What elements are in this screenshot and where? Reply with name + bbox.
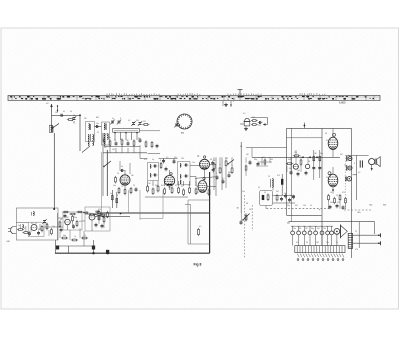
resistor R30 (276, 194, 278, 202)
wire (356, 155, 358, 200)
svg-text:0,1: 0,1 (63, 111, 65, 113)
coil L14 (103, 133, 108, 141)
wire (51, 112, 53, 125)
tuning scale strip (8, 95, 380, 100)
svg-text:15n: 15n (192, 162, 195, 164)
label K6 (96, 117, 99, 119)
resistor R48 (300, 158, 302, 165)
svg-text:220: 220 (196, 192, 199, 194)
svg-text:220: 220 (181, 158, 184, 160)
wire (60, 228, 80, 240)
tube V5 (31, 225, 37, 231)
tube V1 ECH81 (120, 175, 130, 185)
wire (223, 101, 232, 107)
svg-text:0,1: 0,1 (326, 140, 328, 142)
wire (353, 174, 357, 176)
svg-text:80s: 80s (358, 212, 361, 214)
chassis dash line (267, 208, 331, 210)
wire (111, 190, 113, 208)
resistor R27 (231, 166, 233, 174)
wire (241, 213, 246, 222)
antenna A2 mark (57, 105, 58, 112)
wire (291, 215, 293, 221)
svg-text:8: 8 (354, 163, 355, 165)
capacitor C29 (37, 231, 40, 236)
resistor R57 (151, 141, 153, 148)
electrolytic C38 (106, 250, 109, 253)
wire (95, 215, 130, 217)
label Rl (326, 133, 328, 135)
svg-text:0,1: 0,1 (258, 187, 260, 189)
resistor R20 (183, 188, 185, 196)
wire (207, 186, 216, 188)
plus mark (319, 209, 321, 212)
wire (124, 170, 126, 188)
resistor R42 (107, 211, 109, 218)
trimmer C6 (131, 121, 135, 126)
capacitor C45 (329, 205, 332, 210)
svg-text:68: 68 (114, 140, 116, 142)
svg-text:8: 8 (120, 118, 121, 120)
wire (346, 154, 369, 156)
resistor R10 (130, 187, 132, 194)
resistor R26 (225, 159, 227, 167)
wire (116, 192, 118, 208)
resistor R46 (286, 163, 293, 165)
svg-text:1k: 1k (74, 236, 76, 238)
svg-text:0,5: 0,5 (128, 120, 130, 122)
tube V9 EL84 (328, 172, 338, 187)
svg-text:3k3: 3k3 (136, 120, 139, 122)
capacitor C18 (212, 168, 215, 173)
svg-text:0,5: 0,5 (243, 113, 245, 115)
resistor R53 (339, 194, 341, 201)
mech link (251, 205, 253, 231)
svg-text:10n: 10n (284, 193, 287, 195)
trimmer C30 (42, 219, 46, 224)
tube V6 (65, 219, 71, 225)
svg-text:30p: 30p (155, 185, 158, 187)
resistor R43 (61, 237, 68, 239)
svg-text:15n: 15n (293, 228, 296, 230)
junction (332, 189, 334, 191)
resistor R1 (67, 119, 74, 121)
resistor R9 (124, 188, 126, 195)
capacitor C51 (156, 144, 159, 149)
resistor R45 (81, 237, 88, 239)
svg-text:3k3: 3k3 (174, 157, 177, 159)
antenna A1 arrow (50, 104, 53, 112)
resistor R41 (103, 216, 105, 223)
wire (266, 188, 273, 209)
capacitor C27 (292, 195, 295, 200)
transformer T3 (348, 233, 352, 248)
IF can T2 (178, 162, 191, 185)
svg-text:100: 100 (323, 228, 326, 230)
capacitor C34 (95, 223, 98, 228)
wire (374, 222, 376, 234)
wire (79, 115, 81, 151)
label (358, 212, 361, 214)
svg-text:68: 68 (299, 228, 301, 230)
svg-text:1k: 1k (121, 186, 123, 188)
capacitor C46 (336, 204, 339, 209)
resistor R34 (41, 225, 43, 232)
svg-text:68: 68 (308, 161, 310, 163)
svg-text:0,1: 0,1 (175, 185, 177, 187)
resistor R37 (72, 215, 74, 222)
ground bus (55, 252, 210, 254)
wire (140, 130, 161, 132)
coil L13 (104, 124, 106, 131)
capacitor C24 (280, 197, 283, 202)
svg-text:30p: 30p (287, 205, 290, 207)
svg-text:10n: 10n (344, 165, 347, 167)
capacitor C16 (165, 167, 168, 172)
resistor R5 (133, 139, 135, 146)
wire (95, 126, 102, 128)
screen box B6 (63, 212, 82, 230)
svg-text:220: 220 (45, 223, 48, 225)
capacitor C48 (257, 162, 260, 167)
capacitor C23 (281, 174, 283, 195)
svg-text:25: 25 (219, 165, 221, 167)
capacitor C10 (127, 141, 130, 146)
wire (287, 137, 323, 139)
svg-text:AM: AM (181, 132, 184, 135)
wire (164, 159, 175, 164)
resistor R51 (328, 194, 330, 201)
wire (145, 196, 188, 198)
svg-text:15n: 15n (206, 193, 209, 195)
wire (52, 114, 81, 116)
wire (53, 133, 55, 209)
resistor R40 (98, 210, 100, 217)
svg-text:0,1: 0,1 (296, 242, 298, 244)
capacitor C17 (211, 161, 214, 166)
tuning capacitor C2 (72, 115, 76, 124)
chassis bus (100, 212, 210, 214)
wire (148, 153, 161, 155)
svg-text:8: 8 (160, 160, 161, 162)
junction (92, 252, 109, 254)
svg-text:30p: 30p (254, 159, 257, 161)
tube V10 (293, 164, 298, 169)
svg-text:0,5: 0,5 (199, 226, 201, 228)
resistor R25 (219, 166, 221, 174)
svg-text:0,1: 0,1 (310, 205, 312, 207)
resistor R2 (142, 124, 149, 126)
wire (240, 142, 242, 213)
wire (336, 234, 338, 245)
svg-text:6.800: 6.800 (339, 101, 346, 105)
tube V2 EF89 (164, 173, 174, 186)
svg-text:25: 25 (336, 195, 338, 197)
screen box B5 (28, 222, 44, 236)
svg-text:30p: 30p (138, 138, 141, 140)
box AF (260, 191, 273, 206)
svg-text:5p: 5p (110, 193, 112, 195)
svg-text:50: 50 (264, 192, 266, 194)
switch S2 (103, 161, 111, 167)
svg-text:100: 100 (55, 112, 58, 114)
resistor R17 (164, 187, 166, 195)
svg-text:50: 50 (326, 177, 328, 179)
capacitor C47 (342, 205, 345, 210)
wire (58, 218, 85, 221)
label Wh (383, 205, 386, 207)
screen box B4 (16, 208, 58, 240)
wire (20, 224, 31, 232)
tuner bar (113, 129, 140, 133)
svg-text:4k7: 4k7 (295, 205, 298, 207)
trimmer C50 (174, 123, 180, 128)
wire (102, 133, 104, 196)
svg-text:5p: 5p (231, 165, 233, 167)
capacitor C15 (173, 159, 176, 164)
svg-text:470: 470 (355, 249, 358, 251)
svg-text:80c: 80c (370, 205, 373, 207)
winding W2 (347, 165, 352, 170)
wire (246, 147, 287, 149)
resistor R23 (208, 188, 210, 196)
svg-text:68: 68 (60, 219, 62, 221)
screen box B3 (102, 152, 129, 213)
wire (190, 166, 200, 177)
potentiometer P1 (242, 214, 249, 222)
wire (319, 150, 321, 178)
svg-text:5p: 5p (227, 99, 229, 101)
svg-text:30p: 30p (74, 217, 77, 219)
wire (195, 177, 197, 187)
capacitor C39 (360, 160, 362, 167)
svg-text:Wh: Wh (383, 205, 386, 207)
wire (287, 157, 291, 172)
tube V4 EABC80 (198, 177, 207, 192)
resistor R19 (178, 186, 180, 194)
svg-text:10n: 10n (63, 235, 66, 237)
coil L2 (89, 124, 91, 131)
svg-text:4k7: 4k7 (317, 228, 320, 230)
svg-text:220: 220 (143, 121, 146, 123)
dial pointer (238, 90, 243, 96)
screen box B1 (185, 200, 210, 244)
wire (332, 167, 334, 194)
wire (296, 150, 318, 172)
svg-text:68: 68 (210, 159, 212, 161)
wire (120, 161, 130, 174)
wire (252, 156, 340, 158)
junction (114, 132, 137, 133)
svg-text:4k7: 4k7 (79, 221, 82, 223)
svg-text:25: 25 (97, 132, 99, 134)
screen box B7 (85, 207, 110, 231)
wire (332, 128, 334, 157)
trimmer C5 (117, 120, 121, 125)
coil L15 (104, 142, 105, 146)
svg-text:100: 100 (303, 205, 306, 207)
svg-text:470: 470 (144, 159, 147, 161)
svg-text:100: 100 (112, 149, 115, 151)
wire (210, 163, 217, 165)
svg-text:0,5: 0,5 (31, 223, 33, 225)
svg-text:4k7: 4k7 (289, 168, 292, 170)
wire (140, 158, 148, 160)
svg-text:100: 100 (297, 170, 300, 172)
svg-text:15n: 15n (52, 226, 55, 228)
svg-text:25: 25 (133, 185, 135, 187)
svg-text:15n: 15n (300, 157, 303, 159)
svg-text:1k: 1k (336, 242, 338, 244)
resistor R31 (197, 228, 199, 236)
resistor R54 (345, 197, 347, 204)
svg-text:68: 68 (240, 146, 242, 148)
mains tag strip (295, 246, 345, 261)
svg-text:220: 220 (294, 152, 297, 154)
chassis dash line (344, 209, 371, 211)
capacitor C11 (139, 138, 142, 143)
svg-text:10n: 10n (96, 123, 99, 125)
wire (56, 245, 94, 247)
svg-text:0,5: 0,5 (358, 172, 360, 174)
svg-text:220: 220 (258, 125, 261, 127)
coil L1 (49, 125, 53, 132)
resistor R4 (121, 138, 123, 145)
grid cap C12 (120, 169, 125, 172)
coil L8 (180, 175, 188, 179)
resistor R18 (171, 186, 173, 194)
resistor R13 (160, 162, 162, 169)
switch S1 (52, 124, 59, 129)
wire (353, 242, 381, 244)
capacitor C14 (162, 159, 165, 164)
label N (198, 155, 200, 158)
svg-text:8: 8 (233, 101, 234, 103)
svg-text:301: 301 (287, 223, 290, 225)
coil L6 (150, 174, 157, 178)
wire (110, 145, 134, 153)
svg-text:220: 220 (337, 202, 340, 204)
resistor R22 (195, 187, 197, 195)
svg-text:470: 470 (225, 158, 228, 160)
wire (68, 220, 93, 231)
svg-text:0,1: 0,1 (95, 211, 97, 213)
svg-text:10n: 10n (196, 186, 199, 188)
svg-text:8: 8 (216, 173, 217, 175)
coil L12 (22, 225, 25, 229)
capacitor C41 (318, 166, 321, 171)
resistor R24 (213, 162, 215, 170)
svg-text:50: 50 (117, 173, 119, 175)
svg-text:15n: 15n (108, 137, 111, 139)
svg-text:3k3: 3k3 (288, 159, 291, 161)
resistor R38 (76, 220, 78, 227)
resistor R16 (157, 185, 159, 193)
svg-text:8: 8 (117, 195, 118, 197)
capacitor C40 (312, 166, 315, 171)
svg-text:10n: 10n (113, 185, 116, 187)
coil L9 (179, 180, 182, 184)
screen box B2 (140, 190, 163, 220)
svg-text:Fig 8: Fig 8 (194, 263, 202, 267)
speaker LS1 (369, 157, 381, 171)
svg-text:4k7: 4k7 (104, 147, 107, 149)
svg-text:30: 30 (237, 208, 239, 210)
svg-text:3k3: 3k3 (252, 117, 255, 119)
wire (215, 157, 217, 196)
svg-text:5p: 5p (18, 225, 20, 227)
capacitor C1 (59, 114, 64, 117)
svg-text:470: 470 (98, 209, 101, 211)
speaker LS2 (334, 224, 347, 238)
ground (224, 103, 228, 107)
resistor R44 (71, 239, 78, 241)
svg-text:1k: 1k (105, 123, 107, 125)
svg-text:3k3: 3k3 (330, 202, 333, 204)
tube V8 EL84 (328, 133, 338, 149)
electrolytic C36 (56, 246, 59, 249)
tube V11 (305, 164, 309, 168)
capacitor C19 (216, 175, 219, 180)
coil box K2 (102, 122, 110, 145)
wire (83, 231, 85, 246)
resistor R36 (51, 228, 53, 235)
scale tick marks (107, 93, 325, 95)
svg-text:100: 100 (88, 213, 91, 215)
wire (204, 169, 206, 180)
wire (353, 234, 381, 236)
svg-text:1k: 1k (290, 195, 292, 197)
capacitor C9 (115, 141, 118, 146)
svg-text:50: 50 (70, 111, 72, 113)
resistor R14 (147, 185, 149, 193)
wire (116, 145, 140, 159)
coil L7 (180, 164, 188, 168)
label (237, 208, 239, 210)
junction (79, 114, 81, 116)
switch contact row (291, 226, 334, 245)
svg-text:25: 25 (84, 235, 86, 237)
tube V3 EF89 (200, 156, 210, 170)
wire (56, 240, 94, 253)
label (370, 205, 373, 207)
svg-text:30p: 30p (311, 228, 314, 230)
wire (106, 150, 108, 196)
screen dash line (344, 155, 346, 210)
resistor R11 (111, 194, 113, 201)
resistor R6 (145, 140, 147, 147)
label Fig8 (194, 263, 202, 267)
capacitor C33 (60, 228, 63, 233)
svg-text:3k3: 3k3 (228, 172, 231, 174)
terminal (378, 233, 381, 245)
svg-text:0,1: 0,1 (121, 166, 123, 168)
svg-text:25: 25 (268, 176, 270, 178)
wire (104, 146, 140, 148)
svg-text:50: 50 (101, 213, 103, 215)
resistor R21 (189, 186, 191, 194)
resistor R15 (152, 187, 154, 195)
svg-text:8: 8 (24, 228, 25, 230)
coil L11 (31, 212, 34, 216)
strip label 6800 (339, 101, 346, 105)
resistor R35 (46, 223, 48, 230)
wire (256, 162, 272, 166)
contact rail (291, 225, 333, 227)
wire (57, 213, 59, 240)
wire (245, 157, 247, 176)
resistor R47 (293, 155, 300, 157)
